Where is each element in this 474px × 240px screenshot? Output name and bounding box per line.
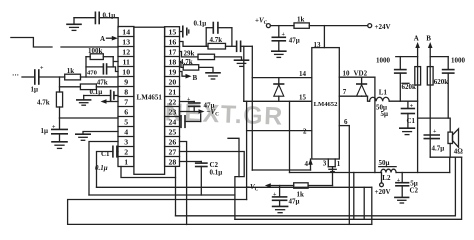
wire pin 4 to ground bbox=[83, 132, 118, 135]
svg-text:C2: C2 bbox=[410, 186, 419, 194]
resistor 1k (supply) bbox=[294, 16, 309, 29]
svg-text:5: 5 bbox=[124, 117, 128, 126]
wire pin 16 jog bbox=[180, 42, 209, 47]
wire pin28 ladder corner down bbox=[175, 167, 177, 216]
capacitor C1 (output filter) bbox=[402, 101, 416, 128]
wire node up to 100k row bbox=[85, 57, 87, 77]
node B arrow (pin 19) bbox=[180, 72, 198, 82]
svg-text:8: 8 bbox=[124, 87, 128, 96]
node -Vc supply arrow (bottom middle) bbox=[246, 183, 294, 193]
capacitor 47u (pin 22) bbox=[180, 97, 215, 112]
wire 1k to U2 pins bbox=[308, 185, 332, 187]
svg-text:4.7k: 4.7k bbox=[37, 99, 50, 107]
wire pin 2 loop down bbox=[97, 152, 113, 188]
svg-text:6: 6 bbox=[124, 107, 128, 116]
svg-text:LM4652: LM4652 bbox=[314, 101, 339, 108]
svg-text:100k: 100k bbox=[88, 47, 103, 55]
node +20V terminal bbox=[375, 173, 391, 196]
capacitor 1u (pin5 decouple) bbox=[41, 118, 68, 135]
svg-text:27: 27 bbox=[169, 147, 177, 156]
wire input step continues to pin 12 bbox=[61, 46, 118, 48]
wire cap to R 1k bbox=[39, 76, 65, 78]
svg-text:12: 12 bbox=[122, 47, 130, 56]
wire feedback bottom a bbox=[97, 186, 372, 188]
svg-text:21: 21 bbox=[169, 87, 177, 96]
svg-text:9: 9 bbox=[124, 77, 128, 86]
svg-text:+20V: +20V bbox=[375, 188, 391, 196]
svg-text:+: + bbox=[40, 66, 44, 72]
svg-text:4Ω: 4Ω bbox=[454, 147, 464, 155]
svg-text:15: 15 bbox=[299, 93, 307, 101]
ground G3 (pin 4) bbox=[76, 134, 90, 140]
wire U2 pin 7 to L1 bbox=[339, 88, 369, 101]
capacitor 1u input coupling bbox=[31, 66, 45, 94]
wire under U2 to pin 4 bbox=[252, 169, 310, 171]
ground G8 (C1) bbox=[400, 128, 415, 134]
capacitor (pin 25 bootstrap) bbox=[181, 114, 201, 128]
wire U2 pin 6 feedback bbox=[339, 118, 349, 224]
svg-text:23: 23 bbox=[169, 107, 177, 116]
svg-text:50μ: 50μ bbox=[379, 159, 390, 167]
svg-text:18: 18 bbox=[169, 57, 177, 66]
svg-text:1k: 1k bbox=[297, 191, 305, 199]
svg-text:10: 10 bbox=[343, 70, 351, 78]
svg-text:4: 4 bbox=[305, 160, 309, 168]
wire 29k to ground bbox=[215, 57, 242, 60]
wire feedback a right leg bbox=[371, 187, 373, 224]
svg-text:1μ: 1μ bbox=[41, 127, 49, 135]
inductor L2 bbox=[379, 159, 397, 182]
node A arrow into pin 13 bbox=[100, 35, 118, 43]
wire feedback bottom c hairpin bbox=[68, 200, 372, 225]
capacitor 1000p (A) bbox=[376, 57, 418, 102]
wire vertical link pin15 row to pin2 row bbox=[289, 101, 291, 172]
svg-text:4: 4 bbox=[124, 127, 128, 136]
node A arrow (sense) bbox=[414, 35, 420, 173]
wire input to C coupling bbox=[22, 76, 35, 78]
svg-text:47k: 47k bbox=[97, 78, 108, 86]
wire U2 pin 10 to L2 leg bbox=[339, 70, 375, 173]
svg-text:47μ: 47μ bbox=[289, 198, 300, 206]
svg-text:LM4651: LM4651 bbox=[137, 94, 163, 102]
resistor 4.7k (pin 18) bbox=[180, 58, 199, 70]
wire pin 11 stub bbox=[113, 61, 118, 63]
capacitor C1 0.1u (pin 2) bbox=[95, 146, 118, 172]
svg-text:L1: L1 bbox=[379, 88, 388, 96]
svg-text:620k: 620k bbox=[434, 78, 449, 86]
capacitor C2 5u (output filter) bbox=[396, 173, 419, 198]
node +24V terminal bbox=[368, 23, 391, 31]
wire L2-row leg down bbox=[353, 173, 355, 220]
wire feedback bottom b bbox=[89, 194, 235, 196]
capacitor 0.1u (mute, pin 14) bbox=[95, 12, 115, 24]
svg-text:2: 2 bbox=[124, 147, 128, 156]
svg-text:B: B bbox=[426, 35, 431, 43]
svg-text:4.7μ: 4.7μ bbox=[432, 144, 445, 152]
svg-text:1: 1 bbox=[124, 157, 128, 166]
svg-text:NEXT.GR: NEXT.GR bbox=[164, 98, 284, 131]
wire node to U2 pin 14 bbox=[252, 46, 311, 170]
ground G1 (top-left mute cap ground) bbox=[67, 18, 81, 31]
U1 right pin ladder pins 15-28 bbox=[165, 27, 180, 167]
ground G10 (pin7 0.1u) bbox=[77, 100, 91, 105]
svg-text:4.7k: 4.7k bbox=[210, 36, 223, 44]
svg-text:3: 3 bbox=[323, 159, 327, 167]
diode VD1 bbox=[274, 78, 284, 102]
capacitor pin 15 (osc) bbox=[180, 26, 189, 36]
svg-text:10: 10 bbox=[122, 67, 130, 76]
svg-text:25: 25 bbox=[169, 127, 177, 136]
ground G5 (pin 18 4.7k) bbox=[206, 73, 220, 79]
svg-text:22: 22 bbox=[169, 97, 177, 106]
svg-text:47μ: 47μ bbox=[289, 37, 300, 45]
diode VD2 bbox=[354, 70, 368, 97]
wire pin 5 row bbox=[60, 117, 119, 119]
speaker LS 4ohm bbox=[448, 129, 463, 157]
wire pin 1 jog bbox=[121, 167, 176, 178]
inductor L1 bbox=[370, 88, 390, 118]
svg-text:1k: 1k bbox=[67, 67, 75, 75]
wire U2 pins 3/1 to -Vc row bbox=[332, 167, 334, 186]
svg-text:620k: 620k bbox=[402, 83, 417, 91]
svg-text:14: 14 bbox=[122, 27, 130, 36]
svg-text:24: 24 bbox=[169, 117, 177, 126]
svg-text:4.7k: 4.7k bbox=[180, 58, 193, 66]
svg-text:1000: 1000 bbox=[376, 57, 391, 65]
node -Vc arrow (pin 24) bbox=[180, 108, 220, 118]
wire node down to R4.7k bbox=[59, 77, 61, 92]
capacitor 47u (-Vc) bbox=[273, 186, 300, 207]
capacitor 4.7u (zobel) bbox=[424, 129, 444, 152]
wire capacitor to pin14 drop bbox=[99, 18, 118, 27]
ground G9 (C2) bbox=[395, 197, 409, 203]
U1 left pin ladder pins 14-1 bbox=[118, 27, 134, 167]
U2 pin 4 stub with arrow bbox=[305, 159, 313, 170]
svg-text:15: 15 bbox=[169, 27, 177, 36]
svg-text:+: + bbox=[410, 104, 414, 110]
resistor 4.7k (vertical) bbox=[37, 92, 63, 107]
wire link a-to-e leg bbox=[363, 187, 365, 219]
ground G6 (supply 47u) bbox=[272, 51, 286, 57]
U2 pins 3 and 1 stubs bbox=[323, 159, 341, 172]
wire L2 row bbox=[290, 157, 450, 172]
svg-text:2: 2 bbox=[303, 127, 307, 135]
capacitor C2 0.1u (pin 28) bbox=[180, 161, 223, 195]
node +Vc terminal bbox=[255, 17, 270, 28]
IC U1 LM4651 body bbox=[134, 27, 165, 174]
wire supply node down to U2 pin 13 bbox=[314, 26, 325, 49]
svg-text:+: + bbox=[282, 32, 286, 38]
svg-text:29k: 29k bbox=[184, 49, 195, 57]
svg-text:14: 14 bbox=[299, 70, 307, 78]
IC U2 LM4652 body bbox=[312, 48, 340, 159]
svg-text:1μ: 1μ bbox=[31, 86, 39, 94]
ground G7 (-Vc 47u) bbox=[273, 206, 288, 212]
svg-text:A: A bbox=[100, 35, 105, 43]
wire pin 3 loop down bbox=[89, 142, 118, 196]
wire +Vc to 1k bbox=[270, 25, 294, 27]
resistor 29k bbox=[184, 49, 215, 59]
svg-text:0.1μ: 0.1μ bbox=[90, 88, 103, 96]
svg-text:5μ: 5μ bbox=[381, 110, 389, 118]
wire node to U2 pin 15 bbox=[244, 46, 312, 101]
svg-text:B: B bbox=[193, 74, 198, 82]
wire top-left node to capacitor bbox=[74, 17, 95, 19]
svg-text:470: 470 bbox=[87, 70, 98, 77]
svg-text:28: 28 bbox=[169, 157, 177, 166]
ground G4 (29k) bbox=[235, 60, 249, 66]
svg-text:+: + bbox=[52, 124, 56, 130]
wire pin 18 jog to 4.7k bbox=[180, 62, 184, 68]
wire pin 26 to feedback loop bbox=[180, 142, 187, 225]
wire pin 17 jog to 29k bbox=[180, 52, 199, 57]
svg-text:+: + bbox=[397, 178, 401, 184]
svg-text:0.1μ: 0.1μ bbox=[194, 20, 207, 28]
svg-text:VD2: VD2 bbox=[354, 70, 368, 78]
resistor 100k bbox=[86, 47, 113, 67]
capacitor 470p (parallel with 100k) bbox=[86, 64, 113, 77]
svg-text:0.1μ: 0.1μ bbox=[210, 169, 223, 177]
svg-text:7: 7 bbox=[343, 88, 347, 96]
capacitor 0.1u (pin 7) with ground bbox=[84, 88, 118, 101]
resistor 4.7k (pin 16) bbox=[208, 36, 232, 49]
svg-text:1000: 1000 bbox=[451, 57, 466, 65]
wire U2 pin 2 feed from pin-15 node bbox=[246, 101, 248, 199]
wire 4.7k to ground bbox=[199, 67, 213, 72]
svg-text:···: ··· bbox=[12, 72, 19, 80]
wire feedback bottom d bbox=[176, 157, 456, 216]
svg-text:20: 20 bbox=[169, 77, 177, 86]
resistor 620k (A) bbox=[402, 67, 421, 91]
svg-text:+: + bbox=[187, 97, 191, 103]
svg-text:7: 7 bbox=[124, 97, 128, 106]
svg-text:+24V: +24V bbox=[375, 23, 391, 31]
svg-text:19: 19 bbox=[169, 67, 177, 76]
svg-text:+: + bbox=[273, 192, 277, 198]
node arrow into pin 7 bbox=[101, 99, 119, 104]
svg-text:+: + bbox=[433, 129, 437, 135]
ground G2 (below 1u) bbox=[52, 134, 67, 149]
svg-text:1: 1 bbox=[337, 160, 341, 168]
wire 1k to node bbox=[81, 76, 119, 78]
svg-text:11: 11 bbox=[123, 57, 130, 66]
svg-text:13: 13 bbox=[314, 41, 322, 49]
svg-text:L2: L2 bbox=[382, 174, 391, 182]
capacitor 47u (supply) bbox=[272, 26, 300, 51]
svg-text:1k: 1k bbox=[297, 16, 305, 24]
svg-text:17: 17 bbox=[169, 47, 177, 56]
node B arrow (sense) bbox=[426, 35, 432, 158]
resistor 1k (input) bbox=[65, 67, 81, 80]
svg-text:16: 16 bbox=[169, 37, 177, 46]
svg-text:A: A bbox=[414, 35, 419, 43]
capacitor 1000p (B) bbox=[430, 57, 465, 119]
capacitor 0.1u (parallel with 4.7k pin16) bbox=[194, 20, 232, 47]
resistor 620k (B) bbox=[427, 67, 448, 86]
wire branch down (inter-IC) bbox=[228, 138, 239, 176]
wire 4.7k to pin5 row bbox=[59, 107, 61, 118]
wire input step from left edge bbox=[11, 38, 52, 48]
svg-text:26: 26 bbox=[169, 137, 177, 146]
wire to pin 10 bbox=[113, 67, 118, 72]
wire pin 27 loop down bbox=[180, 152, 245, 220]
wire 1k to +24V bbox=[309, 25, 367, 27]
svg-text:13: 13 bbox=[122, 37, 130, 46]
resistor 1k (-Vc row) bbox=[294, 183, 308, 199]
resistor 47k (pin 8) bbox=[60, 78, 119, 89]
wire speaker top row bbox=[418, 118, 451, 131]
wire L1 row bbox=[389, 100, 417, 102]
wire feedback bottom e bbox=[235, 157, 462, 219]
wire speaker bottom row bbox=[430, 156, 461, 158]
svg-text:6: 6 bbox=[344, 118, 348, 126]
capacitor (series to node, after 4.7k) bbox=[232, 41, 252, 51]
svg-text:3: 3 bbox=[124, 137, 128, 146]
